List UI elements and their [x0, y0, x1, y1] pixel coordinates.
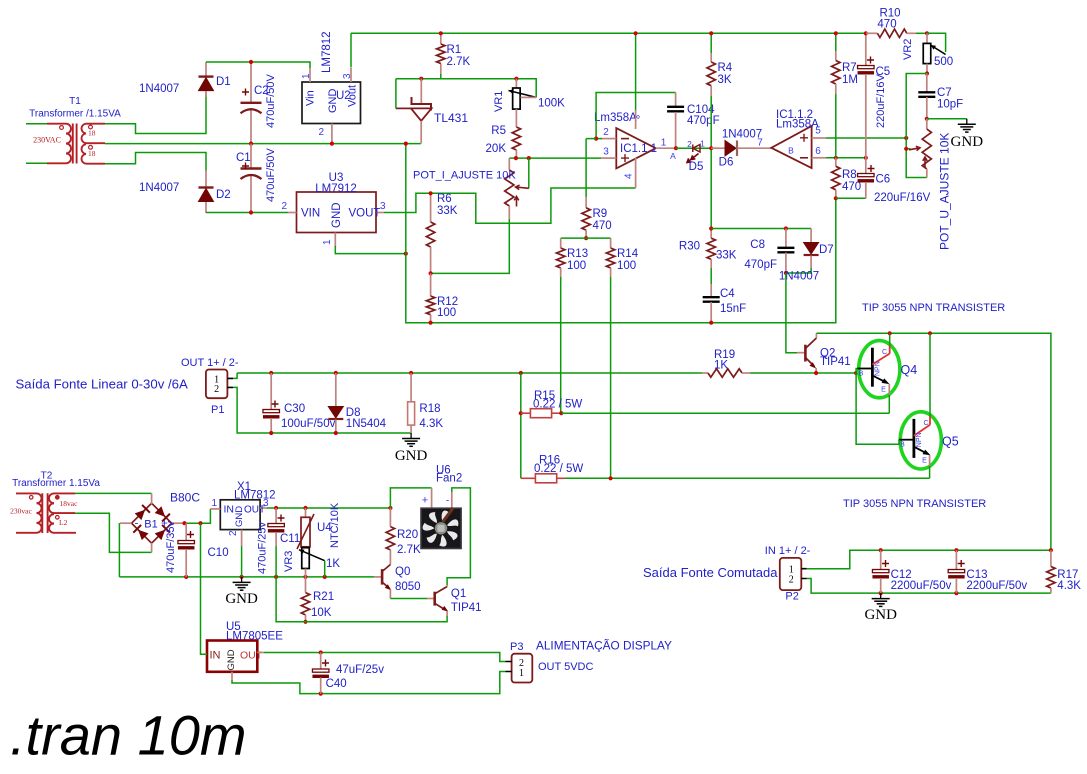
svg-text:100K: 100K [538, 98, 565, 110]
ground bottom rail [241, 577, 243, 583]
diode D2 1N4007 [205, 170, 207, 188]
svg-text:2: 2 [603, 127, 609, 138]
svg-text:470: 470 [593, 220, 612, 232]
svg-text:P1: P1 [211, 404, 224, 416]
transistor Q4 TIP3055 [859, 341, 900, 398]
svg-text:GND: GND [864, 607, 897, 623]
svg-text:470uF/25v: 470uF/25v [257, 522, 269, 574]
connector P3 [512, 654, 533, 683]
svg-text:470pF: 470pF [744, 259, 777, 271]
transistor Q1 TIP41 [433, 592, 436, 606]
diode D8 1N5404 [335, 373, 337, 407]
op-amp IC1.1.2 Lm358A [771, 126, 811, 168]
svg-text:D2: D2 [216, 189, 231, 201]
svg-text:LM7812: LM7812 [234, 489, 276, 501]
svg-text:Saída Fonte Linear 0-30v /6A: Saída Fonte Linear 0-30v /6A [16, 377, 188, 392]
wire pot bottom to R6 [431, 219, 510, 274]
capacitor C104 470pF [675, 93, 677, 107]
svg-text:C1: C1 [236, 152, 251, 164]
resistor R12 100 [430, 273, 432, 296]
wire T1 primary top [26, 123, 47, 125]
IC1.1 output node A [656, 147, 676, 149]
svg-text:Lm358A: Lm358A [776, 119, 819, 131]
svg-text:D1: D1 [216, 76, 231, 88]
svg-text:3: 3 [342, 73, 353, 79]
svg-text:1: 1 [322, 239, 333, 245]
svg-text:18: 18 [88, 129, 96, 138]
svg-text:NPN: NPN [875, 361, 882, 376]
svg-text:5: 5 [815, 126, 821, 137]
svg-text:GND: GND [226, 649, 237, 670]
svg-text:1M: 1M [842, 74, 858, 86]
wire feedback pin2 to C104 and R9 [596, 138, 602, 140]
svg-text:VR2: VR2 [902, 39, 914, 60]
capacitor C2 470uF/50V [250, 62, 252, 102]
wire X1 OUT rail [267, 507, 390, 509]
svg-text:2: 2 [281, 201, 287, 212]
svg-text:100: 100 [617, 260, 636, 272]
wire IC1.1 pin3 net [509, 157, 601, 159]
capacitor C7 10pF [926, 74, 928, 93]
svg-text:IN: IN [224, 504, 235, 516]
diode D7 1N4007 [810, 229, 812, 243]
svg-text:C10: C10 [208, 547, 229, 559]
svg-text:20K: 20K [486, 143, 507, 155]
svg-text:TL431: TL431 [434, 111, 468, 125]
wire R1 bottom / TL431 cathode net [440, 74, 442, 79]
transistor Q5 TIP3055 [900, 412, 941, 469]
svg-text:GND: GND [331, 202, 343, 228]
svg-text:1N4007: 1N4007 [139, 83, 179, 95]
pin 5 wire [812, 137, 826, 139]
svg-text:Vin: Vin [305, 90, 317, 106]
svg-text:Transformer /1.15VA: Transformer /1.15VA [29, 109, 121, 120]
ground P2 [880, 593, 882, 599]
svg-text:C6: C6 [876, 174, 891, 186]
svg-text:C8: C8 [750, 239, 765, 251]
svg-text:.tran 10m: .tran 10m [10, 704, 247, 767]
svg-text:Q0: Q0 [395, 566, 410, 578]
svg-text:R30: R30 [679, 241, 700, 253]
capacitor C13 2200uF/50v [955, 550, 957, 569]
wire fan left terminal [390, 488, 431, 508]
svg-text:0.22 / 5W: 0.22 / 5W [533, 399, 582, 411]
svg-text:470: 470 [842, 181, 861, 193]
svg-text:C11: C11 [280, 533, 300, 545]
wire T1 center tap rail [105, 143, 421, 145]
capacitor C8 470pF [785, 229, 787, 248]
resistor R7 1M [835, 33, 837, 51]
svg-text:1: 1 [519, 668, 524, 679]
resistor R17 4.3K [1050, 550, 1052, 566]
connector P2 [780, 558, 802, 590]
svg-text:C4: C4 [720, 288, 735, 300]
svg-text:100: 100 [437, 307, 456, 319]
svg-text:4.3K: 4.3K [419, 418, 443, 430]
wire long vertical from center tap down to bottom rail [406, 144, 836, 323]
svg-text:D7: D7 [819, 244, 834, 256]
svg-text:100uF/50v: 100uF/50v [281, 418, 336, 430]
svg-text:C40: C40 [326, 678, 347, 690]
diode D1 1N4007 [205, 62, 207, 77]
svg-text:IN: IN [210, 649, 221, 661]
capacitor C11 470uF/25v [275, 508, 277, 523]
svg-text:2: 2 [228, 530, 239, 536]
svg-text:2.7K: 2.7K [447, 56, 471, 68]
wire U5 GND return [231, 672, 233, 680]
capacitor C5 220uF/16V [865, 33, 867, 65]
svg-text:2: 2 [687, 139, 692, 149]
resistor R30 33K [710, 229, 712, 239]
ground near C7 [966, 119, 968, 125]
wire IC1.1 power pin from top rail [635, 33, 637, 110]
wire VR2 bottom loop to pot bottom [906, 74, 927, 178]
bridge rectifier B1 B80C [132, 503, 172, 543]
svg-text:220uF/16V: 220uF/16V [874, 192, 931, 204]
ground P1 rail [410, 433, 412, 439]
svg-text:D6: D6 [719, 157, 734, 169]
shunt reference TL431 [420, 79, 422, 104]
wire R15 to Q4 emitter [561, 412, 889, 414]
svg-text:1: 1 [211, 498, 217, 509]
svg-text:NPN: NPN [916, 432, 923, 447]
svg-text:3: 3 [380, 201, 386, 212]
potentiometer VR3 1K [302, 548, 310, 569]
svg-text:R20: R20 [397, 529, 418, 541]
capacitor C12 2200uF/50v [880, 550, 882, 569]
thermistor U4 NTC/10K [305, 508, 307, 517]
svg-text:POT_U_AJUSTE 10K: POT_U_AJUSTE 10K [938, 133, 952, 250]
svg-text:470uF/35v: 470uF/35v [165, 521, 177, 573]
wire U3 GND [335, 246, 406, 254]
wire TL431 ref loop [395, 79, 397, 109]
svg-text:LM7912: LM7912 [315, 183, 357, 195]
svg-text:Q4: Q4 [901, 363, 918, 377]
svg-text:8050: 8050 [395, 581, 421, 593]
svg-text:ALIMENTAÇÃO DISPLAY: ALIMENTAÇÃO DISPLAY [536, 639, 672, 653]
regulator X1 LM7812 [220, 500, 260, 530]
svg-text:Q5: Q5 [942, 435, 959, 449]
svg-text:Saída Fonte Comutada: Saída Fonte Comutada [643, 565, 778, 580]
svg-text:IC1.1.1: IC1.1.1 [620, 143, 657, 155]
svg-text:OUT: OUT [244, 505, 265, 516]
wire T2 secondary top to bridge [75, 492, 152, 494]
wire to VR2 wiper [927, 33, 946, 52]
wire bridge minus to ground rail [118, 523, 120, 577]
svg-text:E: E [922, 458, 927, 465]
resistor R18 4.3K [410, 373, 412, 402]
pin 3 non-inverting input [601, 157, 616, 159]
svg-text:2: 2 [789, 574, 794, 585]
wire Q4 base to Q5 base [856, 373, 899, 444]
svg-text:R18: R18 [419, 403, 440, 415]
svg-text:1K: 1K [326, 558, 340, 570]
resistor R5 20K [515, 109, 517, 127]
capacitor C40 47uF/25v [320, 653, 322, 669]
regulator U2 LM7812 [302, 82, 361, 124]
capacitor C30 100uF/50v [270, 373, 272, 409]
svg-text:NTC/10K: NTC/10K [329, 502, 341, 548]
svg-text:A: A [670, 151, 676, 161]
wire positive rail top-left [206, 62, 310, 68]
svg-text:GND: GND [395, 448, 428, 464]
resistor R20 2.7K [389, 508, 391, 527]
resistor R9 470 [585, 197, 587, 208]
wire T2 secondary mid to bridge [75, 513, 152, 552]
svg-text:2: 2 [214, 384, 219, 395]
svg-text:R6: R6 [437, 193, 452, 205]
svg-text:1N4007: 1N4007 [139, 182, 179, 194]
svg-text:10pF: 10pF [937, 99, 963, 111]
svg-text:∞: ∞ [634, 112, 640, 122]
svg-text:LM7805EE: LM7805EE [226, 631, 283, 643]
svg-text:230VAC: 230VAC [33, 135, 61, 144]
svg-text:C30: C30 [284, 403, 305, 415]
regulator U5 LM7805EE [207, 641, 257, 672]
wire Q1 emitter return rail [276, 577, 447, 622]
svg-text:1: 1 [661, 138, 667, 149]
svg-text:7: 7 [757, 138, 763, 149]
svg-text:R1: R1 [447, 44, 462, 56]
wire P2 pin1 rail [807, 550, 1051, 569]
svg-text:VIN: VIN [301, 208, 320, 220]
svg-text:B1: B1 [144, 519, 157, 531]
svg-text:4: 4 [624, 173, 635, 179]
resistor R10 470 [866, 32, 877, 34]
wire R8 C6 bottom link [836, 197, 866, 199]
wire negative rail bottom-left [206, 212, 288, 214]
svg-text:B80C: B80C [170, 491, 200, 505]
svg-text:18: 18 [88, 149, 96, 158]
regulator U3 LM7912 [297, 192, 377, 233]
svg-text:1N4007: 1N4007 [779, 271, 819, 283]
wire U5 OUT to P3 [257, 652, 264, 654]
svg-text:VR1: VR1 [493, 91, 505, 112]
svg-text:TIP 3055 NPN TRANSISTER: TIP 3055 NPN TRANSISTER [843, 498, 986, 510]
svg-text:R4: R4 [718, 62, 733, 74]
wire main positive top rail [351, 32, 866, 34]
svg-text:R5: R5 [491, 125, 506, 137]
resistor R13 100 [560, 238, 562, 248]
svg-text:U2: U2 [336, 90, 351, 102]
svg-text:GND: GND [225, 591, 258, 607]
svg-text:230vac: 230vac [10, 507, 32, 516]
resistor R6 33K [430, 193, 432, 222]
wire IC1.1 pin4 [635, 158, 637, 188]
svg-text:T1: T1 [69, 96, 81, 107]
svg-text:500: 500 [934, 56, 953, 68]
transistor Q2 TIP41 [797, 352, 805, 354]
connector P1 [206, 370, 228, 399]
resistor R15 0.22/5W [520, 373, 522, 478]
svg-text:B: B [788, 146, 794, 156]
svg-text:10K: 10K [311, 607, 332, 619]
svg-text:Lm358A: Lm358A [594, 112, 637, 124]
transformer T2 [16, 493, 76, 533]
svg-text:1N4007: 1N4007 [722, 129, 762, 141]
svg-text:1K: 1K [714, 360, 728, 372]
transistor Q0 8050 [373, 576, 375, 578]
op-amp IC1.1.1 Lm358A [616, 128, 656, 168]
transformer T1 [47, 124, 105, 164]
wire C8 bottom to Q2 base [786, 273, 797, 353]
svg-text:15nF: 15nF [720, 303, 746, 315]
svg-text:R14: R14 [617, 248, 639, 260]
wire T1 secondary top to D1 [105, 93, 206, 134]
wire T1 primary bottom [26, 162, 47, 164]
wire bridge plus rail [184, 509, 210, 523]
resistor R14 100 [610, 238, 612, 248]
svg-text:6: 6 [815, 146, 821, 157]
pin 6 wire [812, 157, 826, 159]
svg-text:1N5404: 1N5404 [346, 418, 387, 430]
svg-text:4.3K: 4.3K [1057, 580, 1081, 592]
wire fan right terminal [451, 492, 453, 508]
svg-text:2200uF/50v: 2200uF/50v [966, 580, 1027, 592]
svg-text:R7: R7 [842, 62, 857, 74]
wire U2 Vout to top rail [350, 33, 352, 67]
wire P2 pin2 rail [807, 579, 1051, 594]
svg-text:1: 1 [700, 139, 705, 149]
svg-text:OUT 5VDC: OUT 5VDC [538, 661, 593, 673]
resistor R19 1K [702, 372, 708, 374]
wire R13 R14 top [561, 237, 611, 239]
LED D5 [693, 145, 700, 153]
wire T1 secondary bottom to D2 [105, 153, 206, 173]
resistor R16 0.22/5W [521, 477, 536, 479]
svg-text:1: 1 [301, 73, 312, 79]
svg-text:470: 470 [877, 19, 896, 31]
svg-text:P2: P2 [785, 591, 798, 603]
svg-text:2: 2 [318, 127, 324, 138]
svg-text:R8: R8 [842, 169, 857, 181]
svg-text:2.7K: 2.7K [397, 544, 421, 556]
potentiometer POT_I_AJUSTE 10K [508, 158, 510, 170]
svg-text:470uF/50V: 470uF/50V [265, 74, 277, 128]
svg-text:OUT: OUT [240, 649, 263, 661]
resistor R8 470 [835, 158, 837, 167]
svg-text:IN 1+ / 2-: IN 1+ / 2- [765, 545, 811, 557]
svg-text:R13: R13 [567, 248, 588, 260]
svg-text:33K: 33K [437, 205, 458, 217]
wire C7 bottom to GND [927, 118, 967, 120]
svg-text:TIP41: TIP41 [451, 602, 482, 614]
svg-text:GND: GND [951, 134, 984, 150]
potentiometer POT_U_AJUSTE 10K [926, 119, 928, 129]
svg-text:P3: P3 [510, 641, 523, 653]
svg-text:TIP41: TIP41 [820, 356, 851, 368]
svg-text:470pF: 470pF [687, 115, 720, 127]
svg-text:POT_I_AJUSTE 10K: POT_I_AJUSTE 10K [413, 170, 516, 182]
wire Q0 emitter to Q1 base [390, 598, 427, 600]
svg-text:L2: L2 [59, 518, 68, 527]
wire U3 VOUT negative feed to IC1.1 pin4 [384, 188, 636, 223]
svg-text:R9: R9 [593, 208, 608, 220]
svg-text:E: E [881, 387, 886, 394]
svg-text:VOUT: VOUT [349, 208, 381, 220]
capacitor C4 15nF [710, 284, 712, 297]
svg-text:OUT 1+ / 2-: OUT 1+ / 2- [181, 357, 239, 369]
svg-text:Transformer 1.15Va: Transformer 1.15Va [12, 478, 100, 489]
svg-text:+: + [422, 495, 428, 507]
svg-text:R21: R21 [313, 591, 334, 603]
svg-text:0.22 / 5W: 0.22 / 5W [534, 463, 583, 475]
wire collector rail to output [816, 333, 1051, 550]
svg-text:VR3: VR3 [283, 551, 295, 572]
potentiometer VR1 100K [515, 79, 517, 88]
svg-text:-: - [135, 516, 139, 530]
svg-text:18vac: 18vac [60, 499, 79, 508]
svg-text:470uF/50V: 470uF/50V [265, 148, 277, 202]
wire X1 GND to rail [241, 546, 243, 577]
diode D6 1N4007 [711, 147, 725, 149]
potentiometer VR2 500 [926, 33, 928, 43]
svg-text:D5: D5 [689, 161, 704, 173]
svg-text:Q1: Q1 [451, 588, 466, 600]
wire U5 IN feed from bridge [201, 523, 208, 654]
wire output rail P1 [237, 372, 702, 374]
svg-text:220uF/16V: 220uF/16V [875, 74, 887, 128]
svg-text:C: C [882, 349, 887, 356]
pin 2 inverting input [601, 138, 616, 140]
svg-text:3: 3 [603, 147, 609, 158]
svg-text:TIP 3055 NPN TRANSISTER: TIP 3055 NPN TRANSISTER [862, 302, 1005, 314]
svg-text:2200uF/50v: 2200uF/50v [891, 580, 952, 592]
svg-text:100: 100 [567, 260, 586, 272]
resistor R4 3K [710, 33, 712, 53]
capacitor C6 220uF/16V [865, 158, 867, 174]
svg-text:47uF/25v: 47uF/25v [336, 664, 384, 676]
wire R30 to D7 C8 net [711, 228, 811, 230]
svg-text:3K: 3K [718, 74, 732, 86]
svg-text:LM7812: LM7812 [321, 31, 333, 73]
svg-text:-: - [446, 496, 449, 507]
svg-text:C: C [923, 420, 928, 427]
svg-text:B: B [859, 371, 864, 378]
svg-text:B: B [900, 442, 905, 449]
wire VR3 wiper down [324, 561, 326, 577]
capacitor C10 470uF/35v [185, 523, 187, 540]
svg-text:33K: 33K [716, 250, 737, 262]
resistor R21 10K [305, 577, 307, 593]
svg-text:Fan2: Fan2 [436, 473, 462, 485]
svg-text:C7: C7 [937, 87, 952, 99]
wire ground rail bottom section [119, 576, 374, 578]
resistor R1 2.7K [440, 33, 442, 44]
fan U6 Fan2 [421, 508, 461, 548]
capacitor C1 470uF/50V [250, 144, 252, 168]
